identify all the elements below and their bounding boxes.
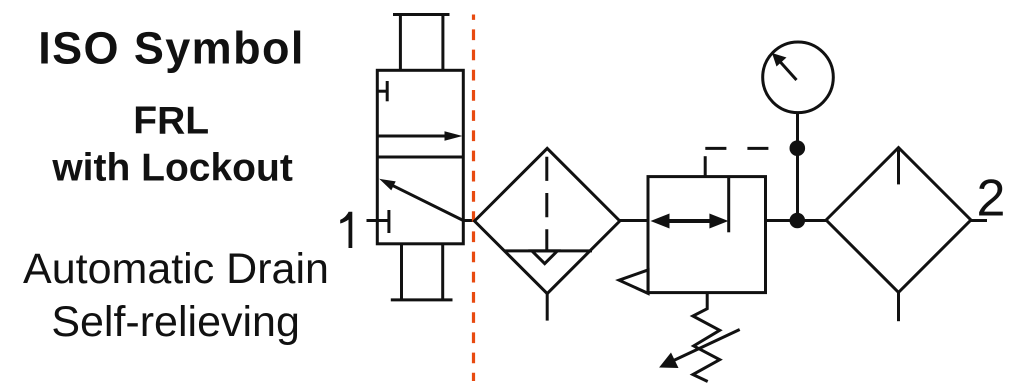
- lockout valve V1 top exhaust pipe: [393, 15, 450, 71]
- junction node (pilot tap): [790, 140, 806, 156]
- gauge G1 needle: [772, 53, 797, 80]
- valve V1 flow arrow (top position): [377, 131, 462, 140]
- filter F1 automatic drain line: [546, 294, 549, 321]
- lockout boundary dashed line: [472, 15, 475, 382]
- regulator R1 inner port line: [727, 177, 730, 233]
- regulator R1 pilot dashed line: [705, 147, 768, 150]
- svg-text:2: 2: [977, 170, 1006, 228]
- junction node (gauge tap on pipe): [790, 213, 806, 229]
- regulator R1 body: [648, 177, 766, 293]
- port label 1: [340, 212, 352, 248]
- filter F1 element (dashed centre line): [545, 157, 548, 251]
- regulator R1 pilot stub: [704, 156, 707, 176]
- svg-text:with Lockout: with Lockout: [51, 146, 292, 189]
- port 2 stub wire: [971, 219, 987, 222]
- lubricator L1 body (diamond): [826, 148, 971, 293]
- wire filter to regulator: [620, 219, 648, 222]
- valve V1 blocked port tick (top position): [377, 81, 387, 101]
- lockout valve V1 bottom exhaust pipe: [391, 244, 453, 300]
- svg-text:ISO Symbol: ISO Symbol: [38, 23, 305, 74]
- gauge G1 riser wire: [796, 113, 799, 221]
- svg-text:FRL: FRL: [133, 99, 209, 142]
- lockout valve V1 body: [377, 70, 463, 244]
- filter F1 drain triangle: [532, 251, 558, 264]
- lubricator L1 drain line: [897, 292, 900, 321]
- wire regulator to lubricator: [766, 219, 828, 222]
- svg-text:Self-relieving: Self-relieving: [51, 298, 300, 346]
- svg-text:Automatic Drain: Automatic Drain: [23, 245, 329, 293]
- filter F1 body (diamond): [475, 148, 620, 293]
- regulator R1 adjustment arrow: [659, 330, 740, 369]
- lubricator L1 drip line: [897, 150, 900, 184]
- port 1 stub wire with blocked-port tick: [367, 210, 389, 233]
- regulator R1 relief vent triangle: [619, 270, 648, 294]
- regulator R1 flow arrow (double headed): [651, 214, 729, 229]
- valve V1 position divider: [377, 156, 463, 159]
- filter F1 sump line: [505, 249, 592, 252]
- wire valve to filter: [463, 219, 476, 222]
- valve V1 exhaust arrow (bottom position): [379, 179, 463, 221]
- regulator R1 adjustment spring: [693, 293, 720, 382]
- gauge G1 dial: [763, 42, 834, 113]
